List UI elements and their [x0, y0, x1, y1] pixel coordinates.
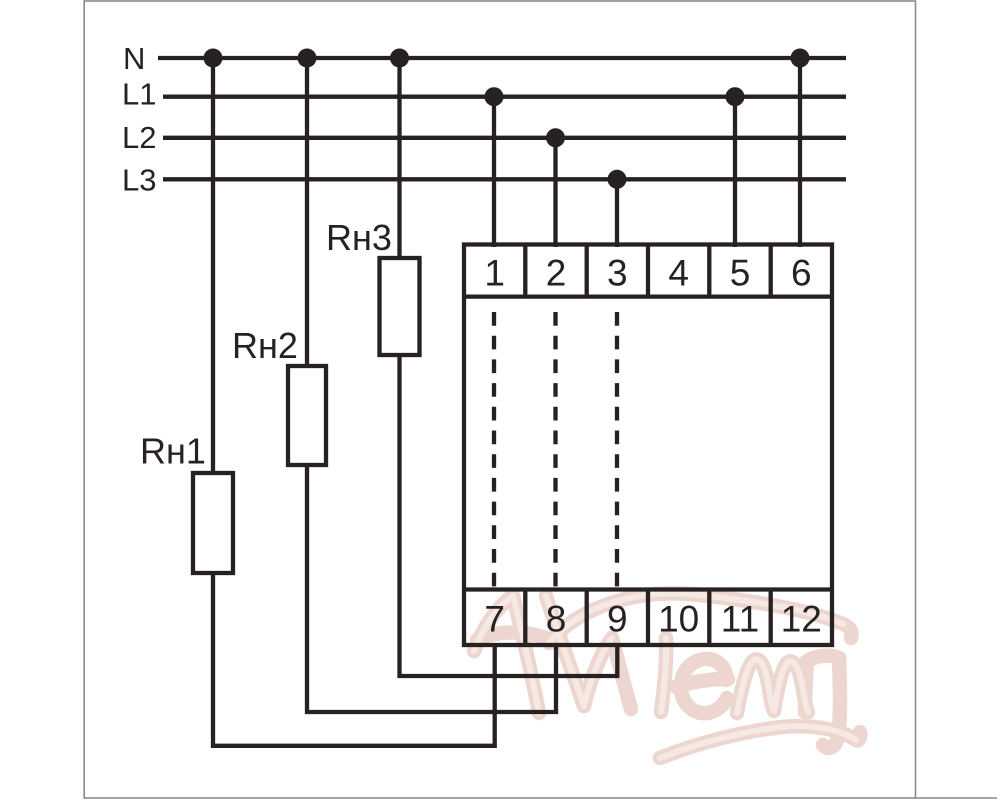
- svg-text:6: 6: [791, 253, 812, 294]
- junction dot N/terminal6: [791, 49, 810, 68]
- svg-text:8: 8: [546, 599, 567, 640]
- wire N to Rн1: [211, 58, 215, 473]
- wire Rн1 to terminal 7: [213, 573, 495, 746]
- top row separator 5|6: [769, 245, 773, 297]
- bus line L1: [163, 95, 846, 99]
- dashed internal link 3-9: [615, 312, 619, 590]
- svg-text:L3: L3: [122, 163, 156, 198]
- junction dot L1/terminal5: [726, 87, 745, 106]
- svg-text:12: 12: [781, 599, 822, 640]
- top row separator 2|3: [585, 245, 589, 297]
- device outline box: [464, 245, 832, 646]
- wire L1 to terminal 1: [492, 97, 496, 247]
- resistor Rн2: [288, 366, 326, 465]
- bus line L2: [163, 136, 846, 140]
- wire Rн2 to terminal 8: [307, 465, 556, 712]
- bottom row separator 8|9: [585, 590, 589, 646]
- svg-text:11: 11: [721, 599, 759, 640]
- junction dot L2/terminal2: [546, 128, 565, 147]
- svg-text:1: 1: [484, 253, 505, 294]
- watermark signature base strokes: [474, 593, 860, 758]
- dashed internal link 2-8: [553, 312, 557, 590]
- svg-text:10: 10: [658, 599, 699, 640]
- junction dot L1/terminal1: [485, 87, 504, 106]
- resistor Rн3: [380, 258, 420, 355]
- junction dot N/Rн1: [204, 49, 223, 68]
- bus line N: [158, 56, 846, 60]
- svg-text:3: 3: [607, 253, 628, 294]
- top row separator 4|5: [707, 245, 711, 297]
- svg-text:L2: L2: [122, 120, 156, 155]
- wire L1 to terminal 5: [733, 97, 737, 247]
- bottom row separator 7|8: [523, 590, 527, 646]
- svg-text:Rн3: Rн3: [326, 217, 392, 258]
- top row separator 1|2: [523, 245, 527, 297]
- junction dot N/Rн2: [298, 49, 317, 68]
- top row separator 3|4: [646, 245, 650, 297]
- svg-text:2: 2: [546, 253, 567, 294]
- wire N to Rн2: [305, 58, 309, 366]
- dashed internal link 1-7: [492, 312, 496, 590]
- bottom terminal row top edge: [464, 587, 832, 591]
- resistor Rн1: [193, 473, 233, 573]
- watermark highlight strokes: [474, 593, 856, 758]
- svg-text:4: 4: [668, 253, 689, 294]
- wire N to Rн3: [397, 58, 401, 258]
- svg-text:7: 7: [484, 599, 505, 640]
- junction dot L3/terminal3: [608, 170, 627, 189]
- svg-text:Rн1: Rн1: [140, 431, 206, 472]
- svg-text:9: 9: [607, 599, 628, 640]
- bottom row separator 11|12: [769, 590, 773, 646]
- wire N to terminal 6: [798, 58, 802, 247]
- wire L3 to terminal 3: [615, 179, 619, 247]
- svg-text:Rн2: Rн2: [232, 325, 298, 366]
- svg-text:N: N: [123, 41, 145, 76]
- wire L2 to terminal 2: [553, 138, 557, 247]
- bottom row separator 10|11: [707, 590, 711, 646]
- bottom row separator 9|10: [646, 590, 650, 646]
- junction dot N/Rн3: [390, 49, 409, 68]
- top terminal row bottom edge: [464, 294, 832, 298]
- svg-text:L1: L1: [122, 77, 156, 112]
- svg-text:5: 5: [730, 253, 751, 294]
- wire Rн3 to terminal 9: [400, 355, 618, 676]
- bus line L3: [163, 177, 846, 181]
